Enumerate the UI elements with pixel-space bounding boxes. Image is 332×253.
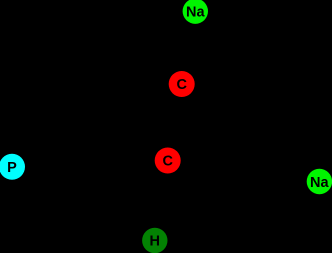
svg-text:Na: Na	[310, 175, 329, 191]
atom C1 (upper)	[169, 71, 195, 97]
atom C2 (middle)	[155, 148, 181, 174]
svg-text:C: C	[162, 154, 173, 170]
svg-text:H: H	[150, 234, 160, 250]
atom P (left)	[0, 154, 25, 180]
atom Na2 (right)	[307, 169, 332, 194]
svg-text:C: C	[176, 77, 187, 93]
svg-text:Na: Na	[186, 4, 205, 20]
atom H (bottom)	[142, 228, 167, 253]
atom Na1 (top)	[183, 0, 208, 24]
svg-text:P: P	[7, 160, 17, 176]
